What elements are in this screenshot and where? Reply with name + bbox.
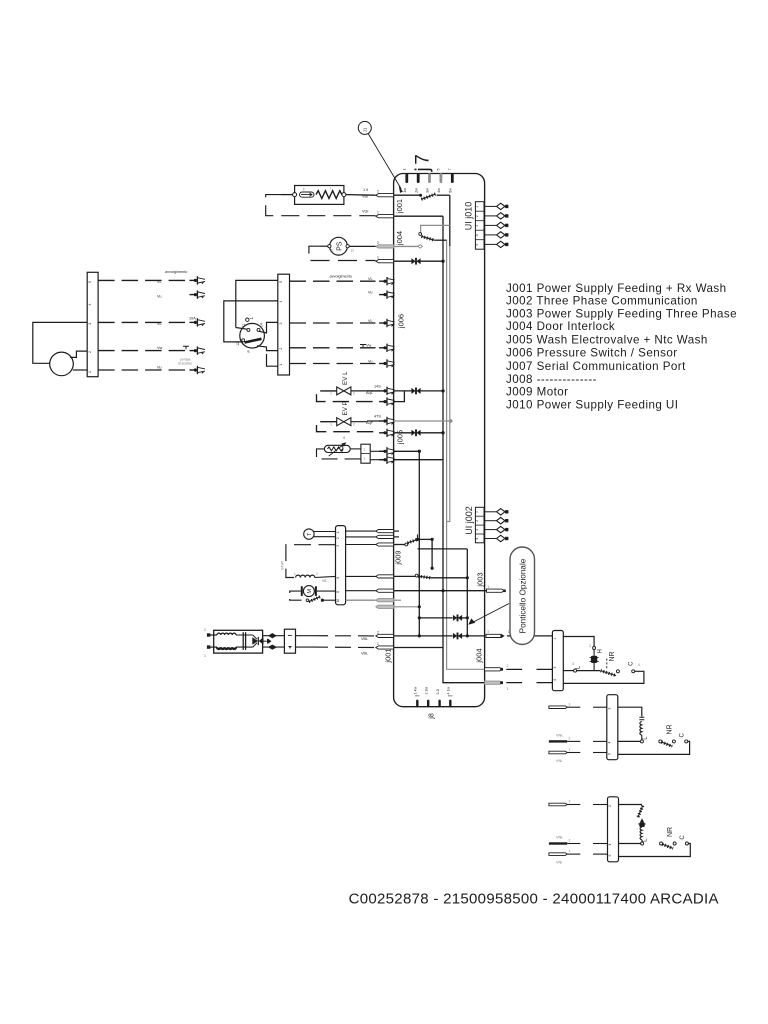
- wire j001 lower return: [394, 647, 443, 649]
- svg-text:3: 3: [475, 225, 479, 227]
- faston j006-4: [379, 290, 395, 298]
- NTC arc: [342, 446, 343, 452]
- connector UI J010: [475, 202, 484, 250]
- junction dot grey: [449, 419, 452, 422]
- contact mid block2: [672, 740, 675, 743]
- svg-text:NR: NR: [609, 651, 616, 661]
- filter output wires: [263, 635, 285, 637]
- junction dot: [418, 450, 421, 453]
- svg-text:2: 2: [353, 392, 355, 396]
- faston lens top: [269, 634, 275, 638]
- svg-text:4w: 4w: [437, 188, 441, 193]
- wire EVP return row with diode: [394, 432, 413, 434]
- svg-text:J008 --------------: J008 --------------: [506, 373, 597, 386]
- svg-text:j004: j004: [395, 231, 404, 246]
- svg-text:1: 1: [294, 572, 296, 576]
- svg-text:VL: VL: [368, 319, 373, 323]
- wire EVP right: [351, 421, 367, 423]
- coil solenoid (filled): [591, 656, 597, 663]
- wire C to return: [563, 671, 644, 683]
- brush bars: [301, 586, 303, 596]
- connector J7 ticks (top edge): [407, 175, 453, 182]
- wire block3 top to actuator: [619, 804, 643, 806]
- dashed EVP left elbow: [317, 422, 376, 433]
- wires NTC box to board: [370, 450, 384, 452]
- converging slants to arrestor: [253, 635, 257, 647]
- PS circle: [330, 237, 348, 255]
- coil block3 (spring): [640, 827, 642, 840]
- pin j004-2 right: [485, 668, 503, 671]
- svg-text:EV L: EV L: [342, 371, 349, 385]
- pin j009-2: [376, 535, 394, 538]
- svg-text:J1: J1: [363, 127, 368, 132]
- blade block2 (hatched): [662, 742, 673, 746]
- wire ps pin5 elbow: [236, 280, 278, 327]
- NTC arrow: [329, 444, 345, 456]
- faston j005-2: [379, 447, 395, 455]
- svg-text:2: 2: [475, 520, 479, 522]
- svg-text:1: 1: [364, 448, 366, 452]
- faston j006-1: [379, 359, 395, 367]
- pin j004-1: [376, 260, 394, 263]
- faston j006-5: [379, 277, 395, 285]
- return wire block2: [618, 741, 690, 754]
- svg-text:VB: VB: [322, 579, 327, 583]
- contact L block3: [641, 842, 644, 845]
- pin j004-2 (grey): [376, 245, 394, 248]
- svg-text:1: 1: [279, 364, 283, 366]
- vertical bus B (switched feed): [449, 195, 451, 246]
- faston j005-3: [379, 429, 395, 437]
- svg-text:avvolgimento: avvolgimento: [165, 270, 187, 274]
- junction dot: [441, 431, 444, 434]
- svg-text:Vu: Vu: [368, 290, 373, 294]
- svg-text:j001: j001: [395, 199, 404, 214]
- connector strip block3: [608, 797, 619, 862]
- svg-text:2: 2: [364, 457, 366, 461]
- pin ponticello: [486, 634, 504, 637]
- UI J002 wires with diamonds: [484, 512, 496, 539]
- svg-text:j001: j001: [384, 648, 393, 663]
- pump connector strip: [87, 272, 98, 376]
- PS right contact: [346, 245, 349, 248]
- wire EVL right: [351, 390, 367, 392]
- wire coil top stub: [593, 650, 595, 656]
- svg-text:VBL: VBL: [361, 652, 368, 656]
- short vertical with end dot: [431, 539, 433, 568]
- svg-text:4: 4: [553, 679, 557, 681]
- motor connector strip: [336, 526, 346, 605]
- svg-text:1: 1: [336, 531, 340, 533]
- terminal bar 3-1: [549, 803, 567, 806]
- svg-text:4: 4: [475, 234, 479, 236]
- callout circle J1: [358, 121, 371, 134]
- contact number labels: [236, 323, 264, 352]
- svg-text:j003: j003: [475, 572, 484, 587]
- mains 2-pin connector box: [284, 629, 295, 653]
- wire contact 11 riser: [236, 328, 247, 330]
- block1 switch blade (hatched): [601, 671, 617, 676]
- pressure switch circle: [240, 323, 265, 348]
- heater terminal circles: [293, 193, 297, 197]
- wire protector to strip: [322, 599, 335, 601]
- thermal mark above pump row4: [183, 346, 189, 349]
- faston pump row1: [190, 276, 206, 284]
- svg-text:5: 5: [279, 281, 283, 283]
- faston j006-2: [379, 344, 395, 352]
- vertical bus B2 grey (door feed): [447, 240, 485, 669]
- svg-text:VL: VL: [368, 277, 373, 281]
- heater resistor zigzag: [316, 191, 342, 199]
- wire j003 switch feed row: [394, 575, 416, 577]
- svg-text:1: 1: [508, 630, 510, 634]
- svg-text:J010 Power Supply Feeding UI: J010 Power Supply Feeding UI: [506, 399, 678, 412]
- faston pump row3: [190, 318, 206, 326]
- wire j001-1 row: [394, 215, 443, 217]
- wire NTC row: [394, 450, 420, 452]
- pin j009-4: [376, 575, 394, 578]
- mech link dashes: [606, 659, 608, 670]
- svg-text:6: 6: [336, 577, 340, 579]
- svg-text:di scarico: di scarico: [178, 361, 192, 365]
- svg-text:11: 11: [242, 324, 246, 328]
- wire stadium to block1: [534, 635, 552, 637]
- pin j009-3: [376, 543, 394, 546]
- wire EVL row with diode: [394, 390, 413, 392]
- svg-text:4: 4: [608, 742, 612, 744]
- svg-text:H: H: [598, 649, 604, 653]
- main board outline: [394, 174, 485, 707]
- svg-text:3: 3: [572, 662, 574, 666]
- wire brush right to strip: [317, 590, 336, 592]
- terminal bar 3-2 (solid): [549, 842, 567, 844]
- dashed rows pump to fastons: [98, 280, 185, 370]
- wire labels VBL etc: [361, 188, 368, 656]
- pin j004-1 right (grey): [485, 681, 503, 684]
- svg-text:5: 5: [475, 244, 479, 246]
- faston j005-5: [379, 397, 395, 405]
- pressure switch connector strip: [278, 274, 290, 375]
- wire EVP row (grey): [394, 420, 451, 422]
- pin number labels for bars: [377, 190, 379, 646]
- svg-text:C: C: [680, 835, 686, 840]
- svg-text:2: 2: [569, 736, 571, 740]
- contact C block2: [685, 740, 688, 743]
- protector blade (hatched): [309, 597, 320, 602]
- svg-text:3: 3: [279, 323, 283, 325]
- svg-text:3: 3: [608, 708, 612, 710]
- heater box: [295, 186, 344, 205]
- j009 switch pivot: [405, 543, 408, 546]
- wires bars to strip (with gap): [567, 706, 580, 708]
- pin tip ponticello: [500, 635, 502, 637]
- svg-text:3: 3: [553, 667, 557, 669]
- svg-text:2: 2: [507, 664, 509, 668]
- grey elbow to j004 switch: [421, 225, 450, 232]
- wire blade row: [418, 538, 433, 540]
- pressure switch contacts: [247, 328, 250, 331]
- svg-text:1: 1: [507, 687, 509, 691]
- relay K1 blade (hatched): [421, 194, 435, 199]
- wire j009 to bus D: [418, 548, 468, 550]
- wire stub ponticello pin: [507, 635, 512, 637]
- contact mid block3: [673, 842, 676, 845]
- wire EVL return elbow: [394, 391, 405, 402]
- svg-text:2: 2: [377, 630, 379, 634]
- pivot contact block3: [660, 842, 663, 845]
- faston j005-4: [379, 417, 395, 425]
- faston wire labels: [366, 277, 381, 425]
- svg-text:1w: 1w: [403, 188, 407, 193]
- svg-text:14S: 14S: [374, 385, 381, 389]
- faston j006-3: [379, 319, 395, 327]
- wire PS right to board: [349, 245, 375, 247]
- svg-text:UI j002: UI j002: [464, 506, 474, 535]
- pin j009-1: [376, 530, 394, 533]
- pin j001-1: [376, 215, 394, 218]
- svg-text:2: 2: [88, 351, 92, 353]
- faston pump row2 (no wire): [190, 290, 206, 298]
- svg-text:5: 5: [608, 855, 612, 857]
- svg-text:avvolgimento: avvolgimento: [330, 275, 352, 279]
- svg-text:2: 2: [204, 628, 206, 632]
- svg-text:1: 1: [488, 585, 490, 589]
- svg-text:C: C: [628, 661, 634, 666]
- wires motor strip to board: [346, 531, 376, 591]
- svg-text:J004 Door Interlock: J004 Door Interlock: [506, 320, 615, 333]
- coil block2 (spring): [639, 717, 644, 720]
- svg-text:AqF: AqF: [366, 421, 374, 425]
- pin j009-7 (grey): [376, 605, 394, 608]
- connector strip block2: [607, 695, 618, 760]
- svg-text:NR: NR: [667, 827, 674, 837]
- wire pin1 elbow: [267, 354, 278, 366]
- svg-text:NR: NR: [667, 724, 674, 734]
- NTC resistor zigzag: [328, 447, 343, 451]
- wire NTC return row: [394, 459, 443, 461]
- j009 switch blade (hatched): [408, 539, 418, 543]
- svg-text:10A: 10A: [189, 316, 196, 320]
- svg-text:10: 10: [336, 599, 340, 603]
- contact C block3: [685, 842, 688, 845]
- diode D1: [411, 258, 420, 265]
- faston pump row5: [190, 366, 206, 374]
- blade block3 (hatched): [662, 844, 673, 848]
- faston pump row4: [190, 346, 206, 354]
- svg-text:2: 2: [377, 190, 379, 194]
- tachometer circle: [304, 529, 314, 539]
- svg-text:5: 5: [88, 281, 92, 283]
- actuator arrow down: [640, 818, 644, 822]
- svg-text:PS: PS: [337, 241, 344, 251]
- pin j009-6 (grey): [376, 599, 394, 602]
- filter box: [214, 630, 263, 653]
- svg-text:Vu: Vu: [368, 359, 373, 363]
- svg-text:VL: VL: [157, 322, 162, 326]
- NTC stadium: [324, 445, 350, 452]
- grey row to bus C: [394, 606, 420, 608]
- wires from connector + dashed to board: [296, 635, 313, 637]
- svg-text:VNL: VNL: [556, 734, 563, 738]
- wire j004 blade to bus B: [434, 239, 446, 241]
- svg-text:1: 1: [553, 638, 557, 640]
- svg-text:2 3w: 2 3w: [424, 687, 428, 695]
- dashed rows ps strip to board: [290, 281, 376, 363]
- svg-text:VL: VL: [157, 280, 162, 284]
- stub above blade: [417, 535, 419, 540]
- j009 stubs: [394, 530, 399, 532]
- terminal bar 2-2 (solid): [549, 740, 567, 742]
- svg-text:3: 3: [569, 702, 571, 706]
- dashed heater left elbow: [266, 195, 376, 216]
- stator inductor: [296, 575, 315, 577]
- svg-text:3: 3: [569, 800, 571, 804]
- wire pin2 to circle bottom: [257, 346, 278, 351]
- svg-text:7: 7: [448, 169, 452, 171]
- svg-text:2: 2: [377, 241, 379, 245]
- svg-text:5: 5: [608, 753, 612, 755]
- faston lens bottom: [269, 645, 275, 649]
- contact circle 2: [593, 647, 596, 650]
- return wire block3: [619, 844, 691, 857]
- connector UI J002: [475, 507, 484, 543]
- wire j004-1 row with diode: [394, 260, 413, 262]
- svg-text:2w: 2w: [414, 188, 418, 193]
- svg-text:2: 2: [336, 537, 340, 539]
- wire L to coil junction: [577, 670, 600, 672]
- J7 pin number labels: [403, 169, 453, 193]
- pivot contact: [659, 740, 662, 743]
- svg-text:2: 2: [475, 215, 479, 217]
- wire from K1 to vertical bus: [437, 194, 450, 196]
- svg-text:STAT: STAT: [281, 560, 285, 570]
- svg-text:2: 2: [353, 422, 355, 426]
- svg-text:4 1w: 4 1w: [447, 687, 451, 695]
- vertical bus C: [418, 451, 420, 636]
- filter terminal squares: [207, 633, 210, 636]
- svg-text:C00252878 - 21500958500 - 2400: C00252878 - 21500958500 - 24000117400 AR…: [349, 891, 719, 908]
- thermal fuse symbol: [300, 192, 315, 197]
- ponticello stadium: [510, 547, 535, 645]
- grey motor row: [394, 599, 401, 601]
- svg-text:j004: j004: [475, 648, 484, 663]
- svg-text:3: 3: [487, 630, 489, 634]
- dashed EVL left elbow: [317, 391, 380, 402]
- terminal bar 2-3: [549, 751, 567, 754]
- junction dot: [441, 389, 444, 392]
- filter coil top: [217, 633, 236, 635]
- svg-text:5w: 5w: [449, 188, 453, 193]
- svg-text:4: 4: [475, 538, 479, 540]
- svg-text:4: 4: [279, 301, 283, 303]
- svg-text:4: 4: [88, 304, 92, 306]
- middle stub with arrow: [263, 640, 267, 642]
- wire heater right to board: [346, 194, 376, 197]
- svg-text:J006 Pressure Switch / Sensor: J006 Pressure Switch / Sensor: [506, 347, 678, 360]
- svg-text:3w: 3w: [426, 188, 430, 193]
- vertical bus D: [466, 549, 468, 636]
- wire PS left: [321, 245, 328, 247]
- diode D2: [411, 388, 420, 395]
- svg-text:1 4w: 1 4w: [414, 687, 418, 695]
- wire contact 12 to pin4: [224, 301, 278, 342]
- wire contact 14 to pin3: [259, 322, 278, 333]
- svg-text:2: 2: [569, 839, 571, 843]
- EVL bowtie: [337, 387, 351, 395]
- pin tip j003: [503, 590, 506, 593]
- filter wires to cap: [236, 634, 253, 636]
- svg-text:EV P: EV P: [342, 401, 349, 415]
- svg-text:5: 5: [437, 169, 441, 171]
- main row block3: [619, 843, 641, 845]
- svg-text:1: 1: [569, 747, 571, 751]
- arrestor bowtie: [252, 637, 258, 645]
- pin j001-1 lower: [376, 646, 394, 649]
- svg-text:M: M: [307, 589, 313, 594]
- wire block2 top to coil: [618, 707, 642, 716]
- svg-text:F: F: [303, 188, 305, 192]
- svg-text:VNi: VNi: [556, 759, 562, 763]
- triac T2: [453, 633, 462, 640]
- svg-text:3 2i: 3 2i: [436, 689, 440, 695]
- svg-text:4: 4: [425, 169, 429, 171]
- pressure switch blade (bold): [245, 339, 262, 343]
- wire j009 switch feed: [394, 544, 405, 546]
- motor rotor circle: [303, 586, 314, 597]
- svg-text:Vw: Vw: [366, 344, 372, 348]
- connector strip block1: [552, 631, 563, 691]
- wire NTC right to 2-pin box: [350, 448, 361, 450]
- svg-text:j009: j009: [394, 550, 403, 565]
- j003 switch pivot: [415, 574, 418, 577]
- svg-text:2: 2: [316, 572, 318, 576]
- svg-text:1: 1: [475, 511, 479, 513]
- svg-text:j006: j006: [397, 314, 406, 329]
- svg-text:1: 1: [377, 211, 379, 215]
- svg-text:Vu: Vu: [157, 294, 162, 298]
- terminal bar 3-3: [549, 853, 567, 856]
- connector J8 ticks (bottom edge): [417, 701, 450, 706]
- thermal mark above j006-2: [360, 345, 366, 348]
- svg-text:3: 3: [608, 805, 612, 807]
- svg-text:1: 1: [403, 169, 407, 171]
- svg-text:4: 4: [638, 663, 640, 667]
- wire pump pin2: [70, 351, 87, 357]
- filter coil bottom: [217, 647, 236, 649]
- dashed brush-left bracket: [290, 591, 306, 600]
- svg-text:VBL: VBL: [361, 637, 368, 641]
- wire j003 row (three phase out): [394, 590, 487, 592]
- contact circle mid: [616, 670, 619, 673]
- j004 switch pivot: [419, 233, 422, 236]
- main row block1: [563, 670, 573, 672]
- svg-text:1 9: 1 9: [363, 188, 368, 192]
- ponticello arrow: [471, 604, 510, 624]
- svg-text:J009 Motor: J009 Motor: [506, 386, 569, 399]
- svg-text:VNL: VNL: [556, 836, 563, 840]
- svg-text:1: 1: [377, 256, 379, 260]
- faston j005-6: [379, 387, 395, 395]
- svg-text:1: 1: [88, 371, 92, 373]
- svg-text:12: 12: [351, 249, 355, 253]
- wire diode row 1 (door feed): [419, 617, 452, 619]
- vertical bus B grey continuation: [447, 246, 450, 522]
- svg-text:J003 Power Supply Feeding Thre: J003 Power Supply Feeding Three Phase: [506, 307, 737, 320]
- contact L block2: [640, 740, 643, 743]
- pin j001-2: [376, 194, 394, 197]
- vertical bus A: [443, 216, 485, 683]
- contact C: [632, 670, 635, 673]
